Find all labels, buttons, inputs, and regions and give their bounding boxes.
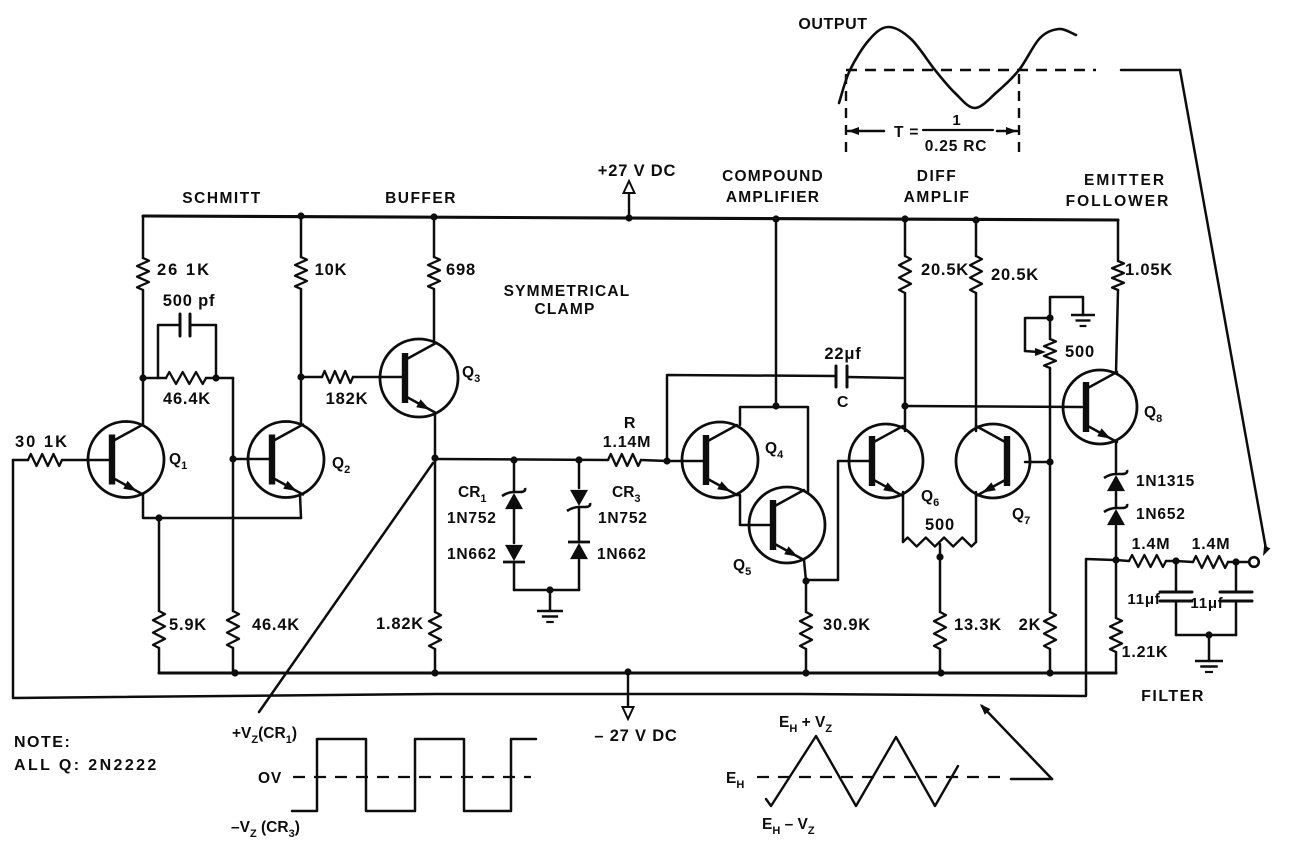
- label 1.05K: [1125, 261, 1173, 279]
- wire 20.5K-2 column: [975, 220, 978, 431]
- svg-text:1.05K: 1.05K: [1125, 261, 1173, 279]
- resistor 26.1K: [137, 258, 149, 290]
- wire Q8 emitter: [1115, 442, 1118, 472]
- svg-text:Q5: Q5: [733, 557, 751, 578]
- svg-text:R: R: [624, 415, 636, 432]
- svg-text:46.4K: 46.4K: [163, 390, 211, 408]
- node pot wiper junction: [1046, 314, 1053, 321]
- label -27 V DC: [594, 727, 677, 745]
- wire Q7 base: [1025, 461, 1050, 464]
- label 500 pf: [163, 292, 216, 310]
- label EH+VZ: [779, 714, 832, 735]
- svg-text:1N652: 1N652: [1136, 506, 1186, 523]
- svg-text:26 1K: 26 1K: [157, 261, 211, 279]
- diode CR3 1N662: [568, 507, 590, 590]
- label Q8: [1144, 404, 1162, 425]
- svg-text:Q6: Q6: [921, 488, 939, 509]
- wire Q7 base column: [1049, 368, 1052, 462]
- label CR3: [612, 484, 641, 505]
- wire Q2 collector column: [300, 216, 303, 423]
- svg-text:EH – VZ: EH – VZ: [762, 816, 815, 837]
- svg-text:Q3: Q3: [462, 364, 480, 385]
- label 11uf second: [1190, 595, 1223, 612]
- label 20.5K second: [991, 266, 1039, 284]
- label BUFFER: [385, 190, 457, 207]
- label C: [837, 394, 849, 411]
- node Q2 base junction: [229, 455, 236, 462]
- resistor 1.21K: [1110, 560, 1122, 673]
- svg-text:SCHMITT: SCHMITT: [182, 190, 261, 207]
- wire clamp bottom: [514, 589, 579, 592]
- label 30 1K: [15, 433, 69, 451]
- diode CR1 1N662: [503, 509, 525, 590]
- svg-text:1.4M: 1.4M: [1132, 536, 1171, 553]
- svg-text:– 27 V DC: – 27 V DC: [594, 727, 677, 745]
- label DIFF AMPLIF: [904, 168, 971, 206]
- label 1N752 right: [598, 510, 648, 527]
- label 500 pot: [1065, 343, 1095, 361]
- label 46.4K lower: [252, 616, 300, 634]
- wire zener link: [1115, 492, 1118, 508]
- node filter ground junction: [1205, 631, 1212, 638]
- label 182K: [326, 390, 369, 408]
- svg-text:500: 500: [1065, 343, 1095, 361]
- svg-text:T =: T =: [894, 124, 919, 141]
- label 1N752 left: [447, 510, 497, 527]
- resistor 10K: [295, 257, 307, 289]
- svg-text:182K: 182K: [326, 390, 369, 408]
- svg-text:C: C: [837, 394, 849, 411]
- label +VZ(CR1): [232, 725, 297, 746]
- wire sine midline solid: [1121, 69, 1180, 72]
- node Q2 collector / 182K junction: [297, 373, 304, 380]
- svg-text:Q8: Q8: [1144, 404, 1162, 425]
- svg-text:20.5K: 20.5K: [921, 261, 969, 279]
- node filter out node: [1232, 558, 1239, 565]
- svg-text:500 pf: 500 pf: [163, 292, 216, 310]
- svg-text:1.82K: 1.82K: [376, 615, 424, 633]
- label 1.4M first: [1132, 536, 1171, 553]
- node clamp node: [431, 454, 438, 461]
- label 1.4M second: [1192, 536, 1231, 553]
- power +27 V DC arrow: [624, 181, 635, 218]
- wire pot wiper: [1025, 318, 1050, 356]
- wire dashed period marker left: [845, 74, 847, 153]
- wire cap branch: [667, 375, 836, 461]
- resistor 30.1K input: [13, 454, 112, 466]
- resistor 13.3K: [934, 612, 946, 673]
- svg-text:500: 500: [925, 516, 955, 534]
- node top rail junctions: [297, 212, 979, 223]
- wire Q3 collector column: [433, 217, 436, 341]
- diode CR1 1N752 zener: [502, 460, 525, 509]
- ground pot ground: [1071, 315, 1095, 326]
- svg-text:Q7: Q7: [1012, 506, 1030, 527]
- svg-text:13.3K: 13.3K: [954, 616, 1002, 634]
- label Q1: [169, 451, 187, 472]
- label FILTER: [1141, 688, 1205, 705]
- svg-text:CR1: CR1: [458, 484, 487, 505]
- wire triangle pointer: [980, 704, 1052, 779]
- svg-text:FOLLOWER: FOLLOWER: [1066, 193, 1171, 210]
- node 500 tap: [936, 553, 943, 560]
- resistor 500 diff: [903, 538, 976, 547]
- svg-text:EMITTER: EMITTER: [1084, 172, 1166, 189]
- label Q3: [462, 364, 480, 385]
- wire 20.5K-1 column: [904, 219, 907, 431]
- waveform triangle wave: [766, 736, 958, 806]
- resistor 1.82K: [429, 458, 441, 673]
- svg-text:–VZ (CR3): –VZ (CR3): [231, 819, 300, 840]
- resistor 1.4M first: [1116, 555, 1176, 567]
- label OUTPUT: [798, 16, 867, 33]
- node filter input node: [1112, 556, 1119, 563]
- node clamp ground junction: [546, 586, 553, 593]
- node compound supply junction: [772, 402, 779, 409]
- resistor 46.4K horizontal: [143, 372, 233, 384]
- label Q2: [332, 455, 350, 476]
- label 1N1315: [1136, 473, 1195, 490]
- label 500 diff: [925, 516, 955, 534]
- svg-text:11μf: 11μf: [1127, 591, 1160, 608]
- wire Q2 base column: [233, 378, 272, 611]
- label EH: [726, 770, 744, 791]
- node Q4 base node: [663, 457, 670, 464]
- label 1N662 right: [597, 546, 647, 563]
- label CR1: [458, 484, 487, 505]
- label 13.3K: [954, 616, 1002, 634]
- svg-text:OUTPUT: OUTPUT: [798, 16, 867, 33]
- svg-text:Q2: Q2: [332, 455, 350, 476]
- label 26 1K: [157, 261, 211, 279]
- wire EH solid tail: [1011, 778, 1052, 781]
- svg-text:1N662: 1N662: [597, 546, 647, 563]
- svg-text:SYMMETRICAL: SYMMETRICAL: [504, 283, 631, 300]
- wire zener to node: [1115, 526, 1118, 560]
- wire dashed period marker right: [1018, 74, 1020, 153]
- label EMITTER FOLLOWER: [1066, 172, 1171, 210]
- capacitor 500pf loop: [158, 314, 216, 378]
- power -27 V DC arrow: [623, 672, 634, 719]
- label SCHMITT: [182, 190, 261, 207]
- ground clamp ground: [537, 590, 563, 622]
- wire Q5 emitter: [804, 560, 806, 581]
- label -VZ(CR3): [231, 819, 300, 840]
- svg-text:Q4: Q4: [765, 440, 784, 461]
- node Q7 base junction: [1046, 458, 1053, 465]
- svg-text:30 1K: 30 1K: [15, 433, 69, 451]
- label 698: [446, 261, 476, 279]
- transistor Q2: [248, 422, 324, 498]
- svg-text:BUFFER: BUFFER: [385, 190, 457, 207]
- svg-text:5.9K: 5.9K: [169, 616, 207, 634]
- label OV: [258, 770, 282, 787]
- svg-text:20.5K: 20.5K: [991, 266, 1039, 284]
- transistor Q4: [682, 422, 758, 498]
- svg-text:ALL Q: 2N2222: ALL Q: 2N2222: [14, 757, 159, 774]
- resistor 20.5K first: [899, 256, 911, 293]
- svg-text:DIFF: DIFF: [917, 168, 957, 185]
- transistor Q1: [88, 422, 164, 498]
- wire Q4 base: [667, 460, 704, 463]
- wire Q4-Q5 collector bracket: [740, 407, 808, 492]
- wire EH dashed: [757, 776, 1005, 778]
- label Q7: [1012, 506, 1030, 527]
- wire Q1 emitter: [143, 495, 301, 518]
- svg-text:EH + VZ: EH + VZ: [779, 714, 832, 735]
- svg-text:1.21K: 1.21K: [1122, 644, 1169, 661]
- transistor Q7: [956, 424, 1030, 498]
- svg-text:Q1: Q1: [169, 451, 187, 472]
- wire 1.05K column: [1116, 220, 1118, 373]
- wire fraction bar: [923, 129, 993, 131]
- wire clamp bus: [435, 459, 608, 460]
- svg-text:0.25 RC: 0.25 RC: [925, 138, 987, 155]
- svg-text:1N752: 1N752: [447, 510, 497, 527]
- label Q4: [765, 440, 784, 461]
- wire +27V top supply rail: [143, 216, 1118, 220]
- waveform clamp square wave: [292, 739, 536, 811]
- label SYMMETRICAL CLAMP: [504, 283, 631, 318]
- diode CR3 1N752 zener: [567, 460, 590, 511]
- resistor 698: [428, 257, 440, 289]
- node Q5 emitter junction: [802, 577, 809, 584]
- resistor 2K: [1044, 462, 1056, 673]
- label 1.82K: [376, 615, 424, 633]
- terminal output: [1249, 557, 1259, 567]
- svg-text:1N752: 1N752: [598, 510, 648, 527]
- wire filter caps bottom: [1176, 634, 1236, 637]
- transistor Q5: [749, 487, 825, 563]
- svg-text:698: 698: [446, 261, 476, 279]
- diode 1N1315 zener: [1104, 470, 1127, 491]
- node filter mid node: [1172, 557, 1179, 564]
- resistor R 1.14M: [608, 454, 667, 466]
- label 30.9K: [823, 616, 871, 634]
- svg-text:COMPOUND: COMPOUND: [722, 168, 824, 185]
- svg-text:30.9K: 30.9K: [823, 616, 871, 634]
- label 20.5K first: [921, 261, 969, 279]
- capacitor 22uf C: [836, 366, 903, 387]
- label Q6: [921, 488, 939, 509]
- label 5.9K: [169, 616, 207, 634]
- wire Q8 base line: [905, 406, 1082, 407]
- label 2K: [1019, 616, 1042, 634]
- svg-text:1N1315: 1N1315: [1136, 473, 1195, 490]
- resistor 1.4M second: [1176, 556, 1248, 568]
- diode 1N652 zener: [1104, 504, 1127, 525]
- label COMPOUND AMPLIFIER: [722, 168, 824, 206]
- wire Q2 emitter: [300, 495, 301, 518]
- wire 500 tap to 13.3K: [939, 544, 942, 612]
- svg-text:10K: 10K: [315, 261, 348, 279]
- resistor 182K: [301, 371, 404, 383]
- wire output pointer diagonal: [1180, 70, 1270, 556]
- wire output feedback bottom line: [13, 460, 1114, 698]
- label R 1.14M: [603, 415, 651, 451]
- waveform output sine: [839, 27, 1076, 108]
- node Q1 emitter / 5.9K junction: [155, 514, 162, 521]
- ground filter ground: [1195, 635, 1223, 672]
- resistor 46.4K lower: [227, 611, 239, 673]
- svg-text:CLAMP: CLAMP: [534, 301, 595, 318]
- transistor Q3: [380, 339, 458, 417]
- label 1N652: [1136, 506, 1186, 523]
- wire compound supply drop: [775, 219, 778, 406]
- svg-text:22μf: 22μf: [824, 345, 861, 363]
- resistor 1.05K: [1112, 261, 1124, 290]
- wire square 0V dashed: [293, 776, 531, 778]
- svg-text:1.14M: 1.14M: [603, 434, 651, 451]
- svg-text:+27 V DC: +27 V DC: [598, 162, 676, 180]
- wire -27V bottom supply rail: [159, 671, 1116, 674]
- transistor Q8: [1063, 370, 1137, 444]
- wire Q7 emitter: [975, 492, 978, 542]
- resistor 500 pot: [1044, 339, 1056, 368]
- resistor 5.9K: [153, 518, 165, 673]
- wire sine midline dashed: [846, 69, 1096, 71]
- wire pot top to ground: [1050, 297, 1083, 339]
- transistor Q6: [849, 424, 923, 498]
- label 0.25 RC: [925, 138, 987, 155]
- svg-text:AMPLIF: AMPLIF: [904, 189, 971, 206]
- resistor 30.9K: [800, 581, 812, 673]
- label +27 V DC: [598, 162, 676, 180]
- node CR1 junction: [510, 456, 517, 463]
- svg-text:AMPLIFIER: AMPLIFIER: [726, 189, 820, 206]
- label fraction 1: [952, 112, 961, 129]
- svg-text:EH: EH: [726, 770, 744, 791]
- svg-text:2K: 2K: [1019, 616, 1042, 634]
- capacitor 11uf second: [1220, 562, 1252, 635]
- node Q8 base junction: [901, 402, 908, 409]
- node CR3 junction: [575, 456, 582, 463]
- label ALL Q: 2N2222: [14, 757, 159, 774]
- svg-text:1: 1: [952, 112, 961, 129]
- wire clamp pointer diagonal: [259, 463, 433, 712]
- node bottom rail junctions: [231, 668, 1053, 676]
- label 46.4K feedback: [163, 390, 211, 408]
- label 22uf: [824, 345, 861, 363]
- svg-text:+VZ(CR1): +VZ(CR1): [232, 725, 297, 746]
- label 1N662 left: [447, 546, 497, 563]
- label NOTE: [14, 734, 71, 751]
- node Q1 collector / 46.4K junction: [139, 374, 219, 381]
- arrow period left: [848, 127, 884, 135]
- svg-text:1N662: 1N662: [447, 546, 497, 563]
- svg-text:CR3: CR3: [612, 484, 641, 505]
- label T =: [894, 124, 919, 141]
- label Q5: [733, 557, 751, 578]
- label 11uf first: [1127, 591, 1160, 608]
- svg-text:46.4K: 46.4K: [252, 616, 300, 634]
- svg-text:1.4M: 1.4M: [1192, 536, 1231, 553]
- svg-text:11μf: 11μf: [1190, 595, 1223, 612]
- wire Q5 emitter to Q6 base: [806, 461, 871, 580]
- svg-text:OV: OV: [258, 770, 282, 787]
- label EH-VZ: [762, 816, 815, 837]
- capacitor 11uf first: [1160, 561, 1192, 635]
- wire Q4 emitter to Q5 base: [737, 495, 770, 525]
- resistor 20.5K second: [970, 256, 982, 293]
- wire Q1 collector branch: [142, 216, 145, 425]
- wire Q3 emitter to clamp node: [434, 414, 437, 458]
- label 1.21K: [1122, 644, 1169, 661]
- wire Q6 emitter: [902, 492, 905, 542]
- label 10K: [315, 261, 348, 279]
- svg-text:FILTER: FILTER: [1141, 688, 1205, 705]
- svg-text:NOTE:: NOTE:: [14, 734, 71, 751]
- arrow period right: [997, 127, 1017, 135]
